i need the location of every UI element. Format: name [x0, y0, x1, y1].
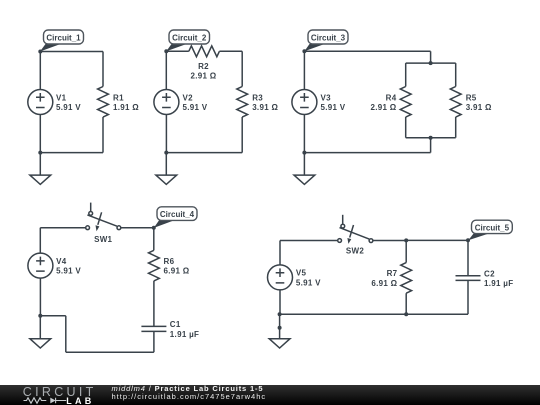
svg-text:2.91 Ω: 2.91 Ω	[190, 71, 216, 80]
wire	[219, 50, 242, 52]
wire	[455, 117, 457, 138]
label R3 value	[252, 93, 278, 112]
wire	[65, 316, 67, 352]
label V5 value	[296, 269, 321, 288]
svg-text:C1: C1	[170, 320, 181, 329]
wire	[241, 117, 243, 153]
svg-text:V3: V3	[321, 93, 332, 102]
wire	[280, 313, 468, 315]
voltage source V3	[292, 90, 317, 115]
svg-text:R5: R5	[466, 93, 477, 102]
wire	[39, 228, 41, 253]
wire	[40, 227, 85, 229]
svg-text:5.91 V: 5.91 V	[56, 103, 81, 112]
label Circuit_5	[468, 220, 512, 240]
node	[38, 151, 42, 155]
wire	[405, 63, 407, 86]
label Circuit_3	[304, 30, 348, 51]
wire	[467, 280, 469, 314]
label R7 value	[371, 269, 397, 288]
svg-text:6.91 Ω: 6.91 Ω	[371, 279, 397, 288]
label V2 value	[183, 93, 208, 112]
svg-text:2.91 Ω: 2.91 Ω	[370, 103, 396, 112]
resistor R6	[149, 250, 160, 281]
resistor R1	[98, 87, 109, 118]
svg-text:V5: V5	[296, 269, 307, 278]
svg-text:5.91 V: 5.91 V	[56, 267, 81, 276]
wire	[121, 227, 154, 229]
svg-text:R7: R7	[387, 269, 398, 278]
node	[404, 312, 408, 316]
wire	[406, 62, 456, 64]
node	[429, 136, 433, 140]
resistor R7	[401, 263, 412, 294]
svg-text:SW2: SW2	[346, 247, 364, 256]
capacitor C2	[456, 276, 481, 281]
voltage source V4	[28, 253, 53, 278]
ground	[269, 314, 290, 348]
wire	[280, 240, 338, 242]
node	[302, 49, 306, 53]
svg-text:Circuit_4: Circuit_4	[160, 210, 195, 219]
svg-text:V2: V2	[183, 93, 194, 102]
svg-text:R2: R2	[198, 62, 209, 71]
svg-text:5.91 V: 5.91 V	[296, 278, 321, 287]
svg-text:R6: R6	[164, 257, 175, 266]
voltage source V2	[154, 90, 179, 115]
node	[278, 312, 282, 316]
svg-text:Circuit_3: Circuit_3	[311, 33, 346, 42]
node	[38, 50, 42, 54]
svg-text:6.91 Ω: 6.91 Ω	[164, 267, 190, 276]
svg-text:Circuit_5: Circuit_5	[475, 223, 510, 232]
switch SW2	[338, 215, 373, 244]
node	[302, 151, 306, 155]
node	[152, 226, 156, 230]
wire	[405, 293, 407, 314]
svg-text:3.91 Ω: 3.91 Ω	[252, 103, 278, 112]
wire	[455, 63, 457, 86]
wire	[467, 240, 469, 275]
svg-text:1.91 Ω: 1.91 Ω	[113, 103, 139, 112]
wire	[406, 137, 456, 139]
voltage source V1	[28, 90, 53, 115]
ground	[30, 153, 51, 185]
wire	[102, 117, 104, 153]
ground	[156, 153, 177, 185]
wire	[303, 115, 305, 153]
node	[278, 326, 282, 330]
label Circuit_4	[154, 207, 197, 228]
svg-text:V4: V4	[56, 257, 67, 266]
svg-text:R4: R4	[386, 93, 397, 102]
node	[164, 151, 168, 155]
wire	[166, 50, 189, 52]
wire	[39, 52, 41, 90]
wire	[303, 51, 305, 89]
wire	[153, 281, 155, 327]
node	[404, 238, 408, 242]
label R1 value	[113, 93, 139, 112]
svg-text:1.91 µF: 1.91 µF	[170, 330, 199, 339]
svg-text:5.91 V: 5.91 V	[321, 103, 346, 112]
label V3 value	[321, 93, 346, 112]
svg-text:5.91 V: 5.91 V	[183, 103, 208, 112]
wire	[40, 51, 103, 53]
svg-text:R3: R3	[252, 93, 263, 102]
node	[429, 61, 433, 65]
label C2 value	[484, 269, 513, 288]
svg-text:R1: R1	[113, 93, 124, 102]
svg-text:C2: C2	[484, 269, 495, 278]
wire	[102, 52, 104, 87]
capacitor C1	[141, 326, 166, 331]
wire	[39, 278, 41, 316]
wire	[279, 290, 281, 314]
label Circuit_1	[40, 30, 84, 52]
svg-text:3.91 Ω: 3.91 Ω	[466, 103, 492, 112]
label C1 value	[170, 320, 199, 339]
wire	[40, 315, 66, 317]
resistor R2	[189, 46, 220, 57]
wire	[39, 115, 41, 153]
wire	[406, 239, 468, 241]
wire	[241, 51, 243, 86]
wire	[430, 138, 432, 153]
wire	[40, 152, 103, 154]
svg-text:Circuit_2: Circuit_2	[172, 33, 207, 42]
CircuitLab logo	[23, 385, 97, 399]
wire	[166, 152, 242, 154]
label V4 value	[56, 257, 81, 276]
ground	[294, 153, 315, 185]
node	[164, 49, 168, 53]
switch SW1	[86, 203, 121, 232]
label R5 value	[466, 93, 492, 112]
svg-text:V1: V1	[56, 93, 67, 102]
wire	[165, 115, 167, 153]
node	[466, 238, 470, 242]
wire	[153, 228, 155, 251]
node	[38, 314, 42, 318]
wire	[304, 50, 430, 52]
wire	[66, 351, 154, 353]
logo resistor	[24, 398, 47, 403]
label R6 value	[164, 257, 190, 276]
label R4 value	[370, 93, 396, 112]
resistor R4	[400, 87, 411, 118]
resistor R3	[237, 87, 248, 118]
wire	[373, 240, 406, 242]
label R2 value	[190, 62, 216, 81]
wire	[405, 117, 407, 138]
svg-text:SW1: SW1	[94, 235, 112, 244]
wire	[279, 241, 281, 265]
wire	[405, 240, 407, 262]
label V1 value	[56, 93, 81, 112]
wire	[153, 331, 155, 352]
wire	[430, 51, 432, 63]
label Circuit_2	[166, 30, 209, 51]
ground	[30, 316, 51, 348]
svg-text:1.91 µF: 1.91 µF	[484, 279, 513, 288]
resistor R5	[450, 87, 461, 118]
wire	[304, 152, 430, 154]
logo diode	[56, 398, 67, 404]
voltage source V5	[268, 265, 293, 290]
wire	[165, 51, 167, 89]
svg-text:Circuit_1: Circuit_1	[46, 33, 81, 42]
